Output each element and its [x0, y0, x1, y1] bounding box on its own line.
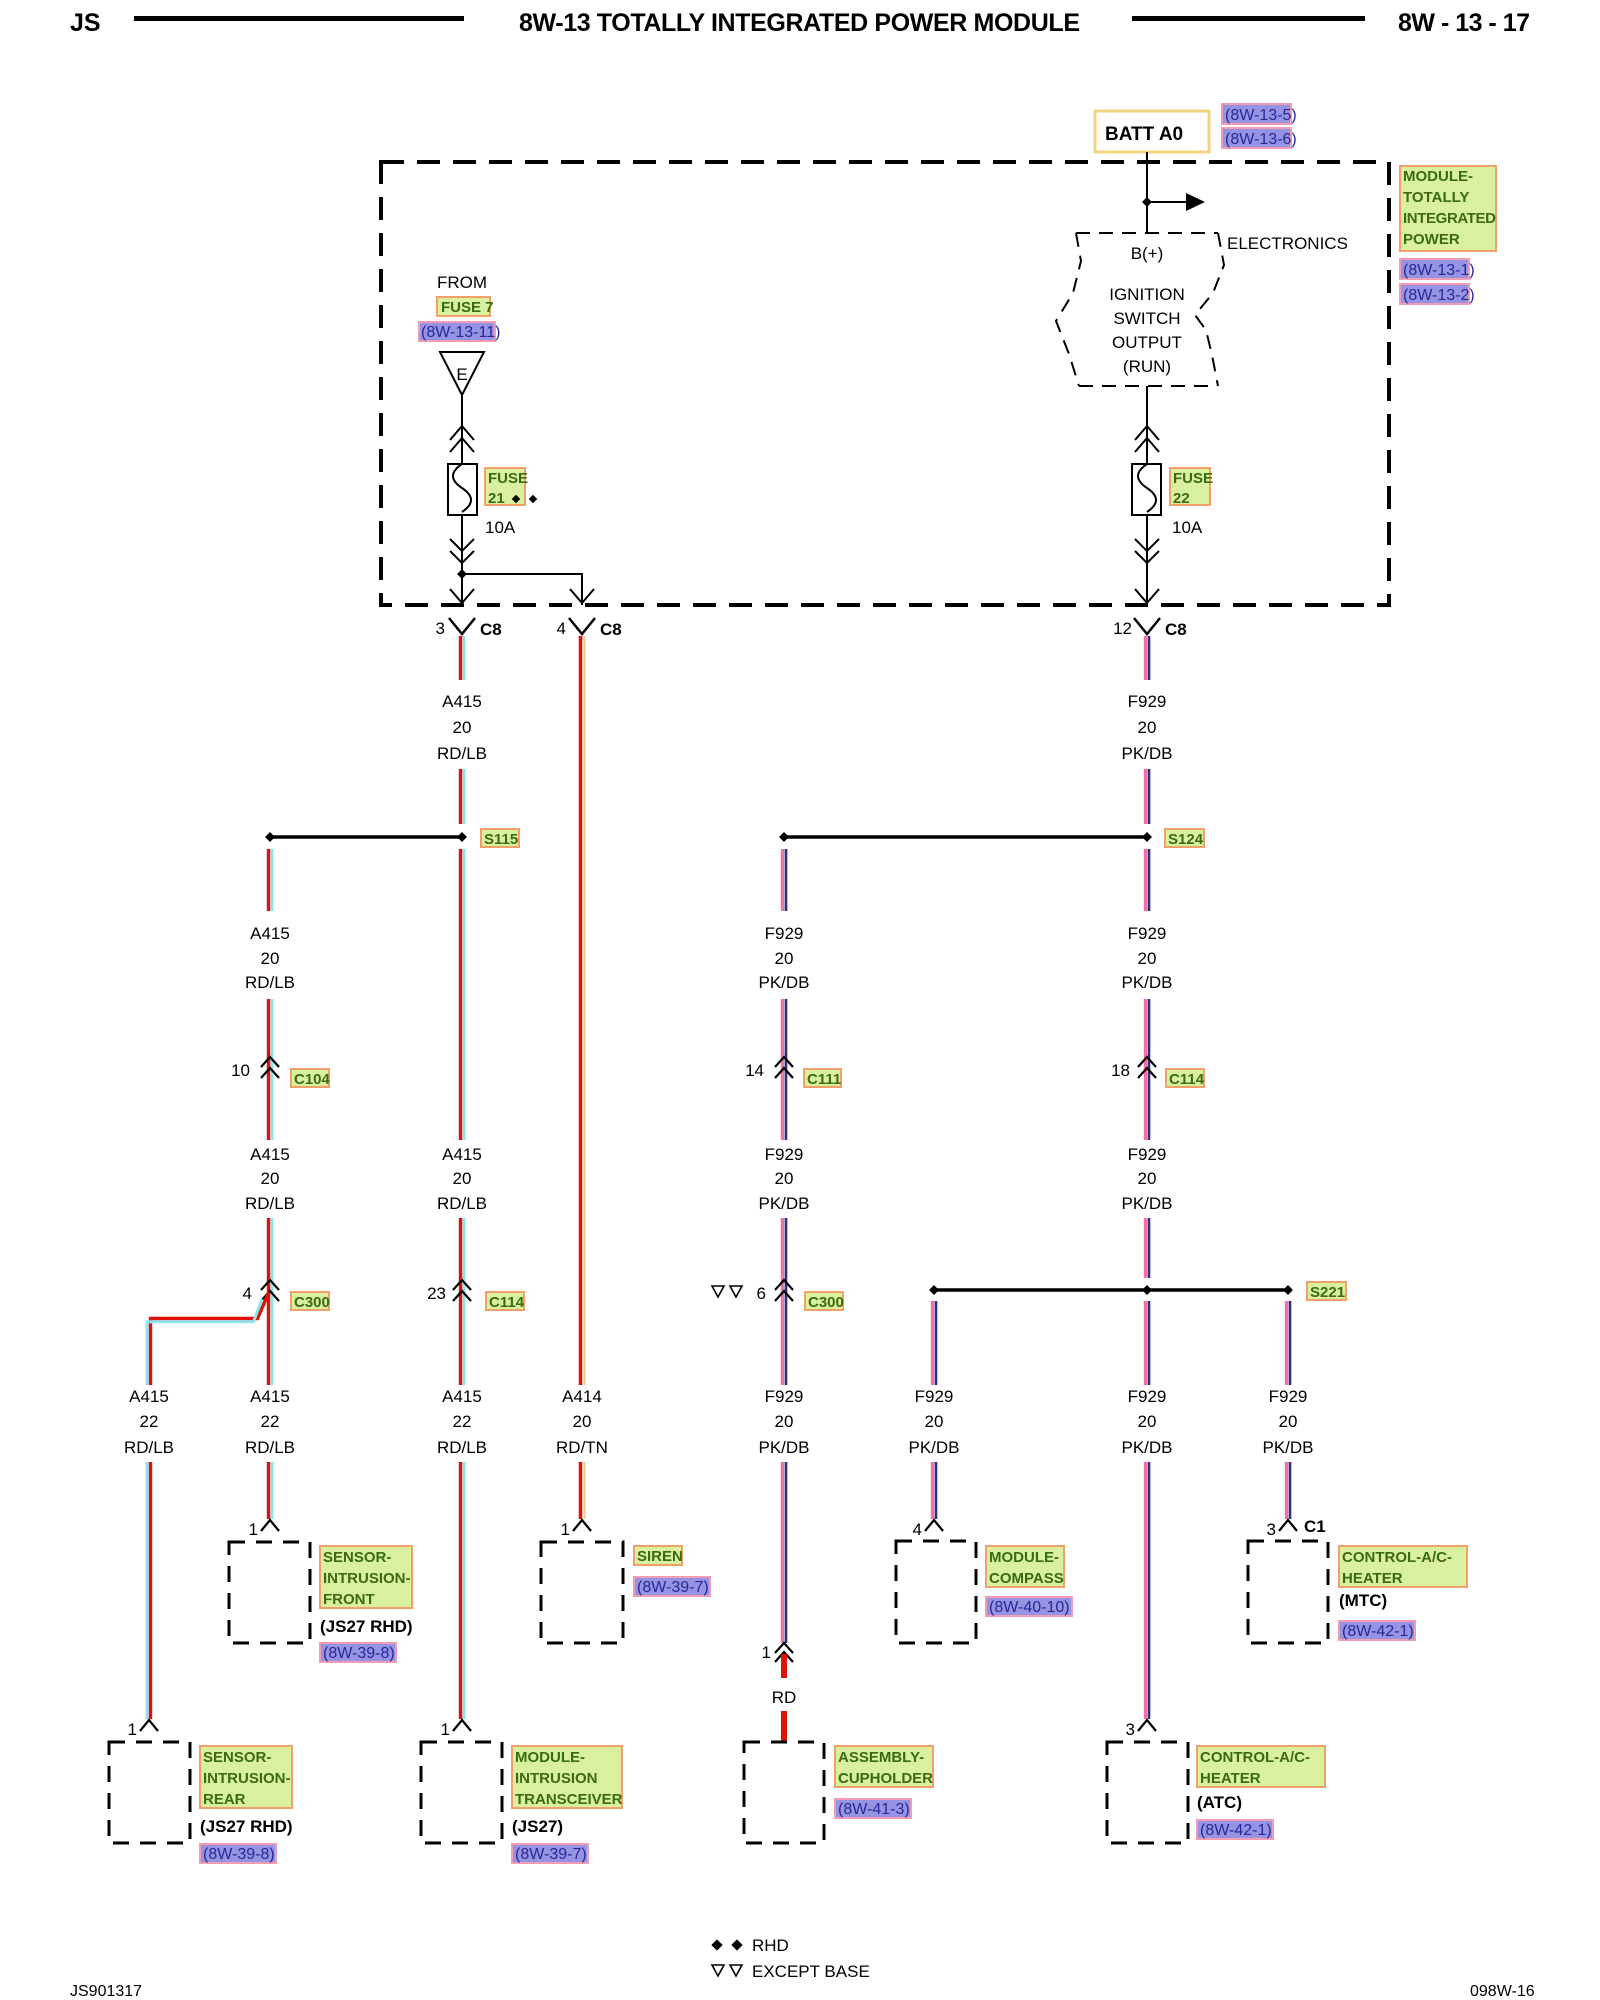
svg-text:22: 22	[453, 1412, 472, 1431]
wire F929 PK/DB seg8	[1146, 1462, 1150, 1719]
wire F929 PK/DB colF seg1	[933, 1301, 937, 1385]
svg-text:SWITCH: SWITCH	[1113, 309, 1180, 328]
svg-text:A415: A415	[442, 1387, 482, 1406]
label S115	[481, 829, 519, 848]
svg-text:BATT A0: BATT A0	[1105, 124, 1183, 145]
label A415 20 RD/LB col270	[245, 924, 295, 992]
svg-text:14: 14	[745, 1061, 764, 1080]
svg-text:C114: C114	[1169, 1071, 1205, 1088]
label C300 at pin4	[291, 1292, 330, 1311]
connector C111 pin 14	[745, 1057, 793, 1080]
arrowhead at box edge pin4	[570, 589, 594, 603]
svg-text:TOTALLY: TOTALLY	[1403, 189, 1469, 206]
label (8W-41-3) cupholder	[835, 1799, 911, 1818]
svg-text:RD/LB: RD/LB	[437, 1194, 487, 1213]
box sensor-intrusion-rear	[109, 1742, 190, 1843]
svg-text:F929: F929	[765, 1145, 804, 1164]
svg-text:RD/LB: RD/LB	[245, 1438, 295, 1457]
wire A415 22 RD/LB col149 seg2	[147, 1462, 151, 1719]
svg-text:REAR: REAR	[203, 1791, 246, 1808]
svg-text:3: 3	[1267, 1520, 1276, 1539]
label (8W-39-7) siren	[634, 1577, 710, 1596]
svg-text:CONTROL-A/C-: CONTROL-A/C-	[1200, 1749, 1310, 1766]
wire BATT A0 to ignition switch	[1146, 152, 1148, 232]
wire F929 PK/DB colE seg2	[783, 999, 787, 1140]
label F929 20 PK/DB col1147 row4	[1121, 1387, 1172, 1457]
svg-text:22: 22	[1173, 490, 1190, 507]
svg-text:(JS27 RHD): (JS27 RHD)	[320, 1617, 413, 1636]
svg-text:1: 1	[561, 1520, 570, 1539]
svg-text:20: 20	[1138, 1412, 1157, 1431]
svg-text:C8: C8	[480, 620, 502, 639]
connector C104 pin 10	[231, 1057, 279, 1080]
label ASSEMBLY-CUPHOLDER	[835, 1746, 933, 1787]
pin 3 C1 heater MTC	[1267, 1517, 1326, 1539]
svg-text:(8W-39-8): (8W-39-8)	[203, 1846, 275, 1863]
svg-text:ASSEMBLY-: ASSEMBLY-	[838, 1749, 924, 1766]
pin 1 transceiver	[441, 1720, 471, 1739]
svg-text:RD/LB: RD/LB	[245, 1194, 295, 1213]
svg-text:HEATER: HEATER	[1342, 1570, 1403, 1587]
svg-text:10: 10	[231, 1061, 250, 1080]
svg-text:PK/DB: PK/DB	[1121, 973, 1172, 992]
svg-text:OUTPUT: OUTPUT	[1112, 333, 1182, 352]
label S124	[1165, 829, 1204, 848]
junction dot on batt wire	[1142, 197, 1152, 207]
node E triangle	[440, 352, 484, 395]
svg-text:PK/DB: PK/DB	[1121, 1194, 1172, 1213]
wire arrow branch	[1147, 201, 1187, 203]
svg-text:A415: A415	[442, 1145, 482, 1164]
svg-text:20: 20	[925, 1412, 944, 1431]
svg-text:A415: A415	[129, 1387, 169, 1406]
wire A415 RD/LB seg4	[461, 1218, 465, 1385]
connector C8 pin 3	[436, 618, 502, 639]
label A415 22 RD/LB col462	[437, 1387, 487, 1457]
svg-text:C1: C1	[1304, 1517, 1326, 1536]
svg-text:HEATER: HEATER	[1200, 1770, 1261, 1787]
svg-text:PK/DB: PK/DB	[1121, 1438, 1172, 1457]
svg-text:3: 3	[436, 619, 445, 638]
svg-text:F929: F929	[765, 924, 804, 943]
wire F929 PK/DB colG seg1	[1287, 1301, 1291, 1385]
connector C300 pin 4	[243, 1280, 279, 1303]
connector chevrons above fuse 22	[1135, 426, 1159, 452]
svg-text:(8W-40-10): (8W-40-10)	[989, 1599, 1070, 1616]
wire branch to pin 4	[462, 574, 582, 605]
label A415 22 RD/LB col270	[245, 1387, 295, 1457]
fuse FUSE 21 symbol	[448, 464, 477, 515]
label A415 20 RD/LB col462 row3	[437, 1145, 487, 1213]
svg-text:(JS27): (JS27)	[512, 1817, 563, 1836]
wire A415 RD/LB left seg2	[269, 999, 273, 1140]
svg-text:(8W-13-6): (8W-13-6)	[1225, 131, 1297, 148]
svg-text:(8W-13-11): (8W-13-11)	[421, 324, 500, 341]
svg-text:3: 3	[1126, 1720, 1135, 1739]
svg-text:RD/TN: RD/TN	[556, 1438, 608, 1457]
svg-text:RHD: RHD	[752, 1936, 789, 1955]
svg-text:20: 20	[453, 1169, 472, 1188]
svg-text:20: 20	[775, 949, 794, 968]
label (8W-13-6)	[1222, 128, 1297, 148]
label SENSOR-INTRUSION-FRONT	[320, 1546, 412, 1608]
wire A414 RD/TN seg1	[581, 636, 585, 1385]
svg-text:(8W-42-1): (8W-42-1)	[1200, 1822, 1272, 1839]
svg-text:SIREN: SIREN	[637, 1548, 683, 1565]
svg-text:F929: F929	[915, 1387, 954, 1406]
wire ignition switch to fuse 22	[1146, 386, 1148, 464]
svg-text:PK/DB: PK/DB	[1121, 744, 1172, 763]
svg-text:21: 21	[488, 490, 505, 507]
except-base triangles at C300 pin6	[712, 1286, 742, 1297]
label F929 20 PK/DB col784 row3	[758, 1387, 809, 1457]
svg-text:4: 4	[913, 1520, 922, 1539]
arrowhead at box edge pin12	[1135, 589, 1159, 603]
label F929 20 PK/DB col1147 row3	[1121, 1145, 1172, 1213]
wire A415 RD/LB left seg4	[269, 1218, 273, 1385]
wire F929 PK/DB colE seg1	[783, 849, 787, 911]
svg-text:TRANSCEIVER: TRANSCEIVER	[515, 1791, 623, 1808]
svg-text:1: 1	[128, 1720, 137, 1739]
splice S124	[779, 832, 1152, 842]
label (8W-13-1)	[1400, 259, 1475, 279]
wire F929 PK/DB colG seg2	[1287, 1462, 1291, 1519]
label CONTROL-A/C-HEATER ATC	[1197, 1746, 1325, 1787]
svg-text:20: 20	[775, 1412, 794, 1431]
svg-text:PK/DB: PK/DB	[758, 1194, 809, 1213]
svg-text:FUSE: FUSE	[488, 470, 528, 487]
fuse FUSE 22 symbol	[1132, 464, 1161, 515]
legend RHD dots	[711, 1936, 789, 1955]
connector chevrons below fuse 22	[1135, 539, 1159, 563]
box cupholder	[744, 1742, 824, 1843]
pin 1 cupholder double chevron	[762, 1643, 793, 1662]
connector C114 pin 23	[427, 1280, 471, 1303]
wire A415 22 RD/LB seg6	[461, 1462, 465, 1719]
svg-text:10A: 10A	[485, 518, 516, 537]
label CONTROL-A/C-HEATER MTC	[1339, 1546, 1467, 1587]
label FUSE 21	[485, 468, 537, 507]
label (8W-42-1) MTC	[1339, 1621, 1415, 1640]
connector chevrons below fuse 21	[450, 539, 474, 563]
pin 4 compass	[913, 1520, 943, 1539]
svg-text:(8W-41-3): (8W-41-3)	[838, 1801, 910, 1818]
pin 1 sensor-intrusion-rear	[128, 1720, 158, 1739]
svg-text:18: 18	[1111, 1061, 1130, 1080]
svg-text:20: 20	[261, 949, 280, 968]
wire F929 PK/DB colF seg2	[933, 1462, 937, 1519]
connector C300 pin 6	[757, 1280, 793, 1303]
header rule left	[134, 16, 464, 21]
svg-text:1: 1	[441, 1720, 450, 1739]
label (8W-39-8) rear	[200, 1844, 276, 1863]
svg-text:INTRUSION: INTRUSION	[515, 1770, 598, 1787]
wire A415 RD/LB seg2	[461, 769, 465, 824]
label SENSOR-INTRUSION-REAR	[200, 1746, 292, 1808]
wire F929 PK/DB seg6	[1146, 1218, 1150, 1278]
svg-text:POWER: POWER	[1403, 231, 1460, 248]
svg-text:8W-13 TOTALLY INTEGRATED POWER: 8W-13 TOTALLY INTEGRATED POWER MODULE	[519, 9, 1080, 37]
svg-text:PK/DB: PK/DB	[908, 1438, 959, 1457]
svg-text:FROM: FROM	[437, 273, 487, 292]
box heater MTC	[1248, 1541, 1328, 1643]
label F929 20 PK/DB col1147 row2	[1121, 924, 1172, 992]
svg-text:RD: RD	[772, 1688, 797, 1707]
label S221	[1307, 1282, 1346, 1301]
svg-text:COMPASS: COMPASS	[989, 1570, 1064, 1587]
svg-text:(RUN): (RUN)	[1123, 357, 1171, 376]
label (8W-13-11)	[419, 322, 500, 341]
label F929 20 PK/DB col934	[908, 1387, 959, 1457]
wire F929 PK/DB seg7	[1146, 1301, 1150, 1385]
svg-text:S115: S115	[484, 831, 518, 848]
label F929 20 PK/DB col784 row2	[758, 1145, 809, 1213]
label C114 at pin23	[486, 1292, 525, 1311]
wire fuse 21 down	[461, 515, 463, 605]
label A414 20 RD/TN	[556, 1387, 608, 1457]
svg-text:F929: F929	[1128, 1387, 1167, 1406]
svg-text:FUSE: FUSE	[1173, 470, 1213, 487]
wire RD thick seg2	[781, 1711, 787, 1742]
svg-text:(MTC): (MTC)	[1339, 1591, 1387, 1610]
connector C114 pin 18	[1111, 1057, 1156, 1080]
svg-text:23: 23	[427, 1284, 446, 1303]
svg-text:RD/LB: RD/LB	[437, 1438, 487, 1457]
svg-text:C8: C8	[1165, 620, 1187, 639]
svg-text:B(+): B(+)	[1131, 244, 1164, 263]
svg-text:10A: 10A	[1172, 518, 1203, 537]
svg-text:C300: C300	[294, 1294, 330, 1311]
box sensor-intrusion-front	[229, 1542, 310, 1643]
svg-text:(8W-39-8): (8W-39-8)	[323, 1645, 395, 1662]
svg-text:JS: JS	[70, 9, 101, 37]
junction dot below fuse 21	[457, 569, 467, 579]
wire A415 RD/LB seg3 below S115	[461, 849, 465, 1140]
svg-text:F929: F929	[765, 1387, 804, 1406]
svg-text:MODULE-: MODULE-	[989, 1549, 1059, 1566]
box siren	[541, 1542, 623, 1643]
svg-text:INTRUSION-: INTRUSION-	[323, 1570, 411, 1587]
label C300 at pin6	[805, 1292, 844, 1311]
svg-text:JS901317: JS901317	[70, 1983, 142, 2000]
svg-text:(JS27 RHD): (JS27 RHD)	[200, 1817, 293, 1836]
label MODULE-INTRUSION TRANSCEIVER	[512, 1746, 623, 1808]
svg-text:12: 12	[1113, 619, 1132, 638]
svg-text:20: 20	[573, 1412, 592, 1431]
svg-text:20: 20	[261, 1169, 280, 1188]
svg-text:CUPHOLDER: CUPHOLDER	[838, 1770, 933, 1787]
svg-text:F929: F929	[1128, 924, 1167, 943]
svg-text:A414: A414	[562, 1387, 602, 1406]
label A415 20 RD/LB col462	[437, 692, 487, 763]
box heater ATC	[1107, 1742, 1188, 1843]
pin 1 siren	[561, 1520, 591, 1539]
svg-text:22: 22	[140, 1412, 159, 1431]
label A415 22 RD/LB col149	[124, 1387, 174, 1457]
label (8W-39-7) transceiver	[512, 1844, 588, 1863]
box transceiver	[421, 1742, 502, 1843]
svg-text:(8W-13-1): (8W-13-1)	[1403, 262, 1475, 279]
svg-text:20: 20	[775, 1169, 794, 1188]
svg-text:098W-16: 098W-16	[1470, 1983, 1535, 2000]
svg-text:RD/LB: RD/LB	[245, 973, 295, 992]
wire F929 PK/DB seg2	[1146, 769, 1150, 824]
svg-text:RD/LB: RD/LB	[437, 744, 487, 763]
label C114 at pin18	[1166, 1069, 1205, 1088]
svg-text:SENSOR-: SENSOR-	[203, 1749, 271, 1766]
svg-text:F929: F929	[1269, 1387, 1308, 1406]
connector C8 pin 4	[557, 618, 622, 639]
wire F929 PK/DB colE seg4	[783, 1218, 787, 1385]
label (8W-13-2)	[1400, 284, 1475, 304]
pin 3 heater ATC	[1126, 1720, 1156, 1739]
svg-text:20: 20	[1279, 1412, 1298, 1431]
wire RD thick seg1	[781, 1654, 787, 1678]
svg-text:20: 20	[1138, 1169, 1157, 1188]
svg-text:C8: C8	[600, 620, 622, 639]
box compass	[896, 1541, 976, 1643]
svg-text:(ATC): (ATC)	[1197, 1793, 1242, 1812]
svg-text:S221: S221	[1310, 1284, 1345, 1301]
wire branch bend to x=149	[147, 1292, 269, 1385]
svg-text:C104: C104	[294, 1071, 331, 1088]
svg-text:A415: A415	[250, 1387, 290, 1406]
wire A414 RD/TN seg2	[581, 1462, 585, 1519]
wire A415 22 RD/LB col270 seg2	[269, 1462, 273, 1519]
label (8W-42-1) ATC	[1197, 1820, 1273, 1839]
svg-text:INTRUSION-: INTRUSION-	[203, 1770, 291, 1787]
svg-text:F929: F929	[1128, 1145, 1167, 1164]
label MODULE-COMPASS	[986, 1546, 1064, 1587]
label (8W-13-5)	[1222, 104, 1297, 124]
svg-text:22: 22	[261, 1412, 280, 1431]
svg-text:RD/LB: RD/LB	[124, 1438, 174, 1457]
svg-text:PK/DB: PK/DB	[1262, 1438, 1313, 1457]
svg-text:(8W-39-7): (8W-39-7)	[515, 1846, 587, 1863]
svg-text:1: 1	[249, 1520, 258, 1539]
svg-text:CONTROL-A/C-: CONTROL-A/C-	[1342, 1549, 1452, 1566]
svg-text:MODULE-: MODULE-	[515, 1749, 585, 1766]
label SIREN	[634, 1546, 683, 1565]
svg-text:F929: F929	[1128, 692, 1167, 711]
label A415 20 RD/LB col270 row2	[245, 1145, 295, 1213]
header rule right	[1132, 16, 1365, 21]
svg-text:6: 6	[757, 1284, 766, 1303]
label FUSE 22	[1170, 468, 1213, 507]
label F929 20 PK/DB col784	[758, 924, 809, 992]
svg-text:INTEGRATED: INTEGRATED	[1403, 210, 1496, 227]
wire F929 PK/DB colE seg6	[783, 1462, 787, 1643]
splice S221	[929, 1285, 1293, 1295]
svg-text:20: 20	[1138, 718, 1157, 737]
svg-text:SENSOR-: SENSOR-	[323, 1549, 391, 1566]
wire E to fuse 21	[461, 395, 463, 464]
wire F929 PK/DB seg1	[1146, 636, 1150, 680]
svg-text:MODULE-: MODULE-	[1403, 168, 1473, 185]
label MODULE-TOTALLY INTEGRATED POWER	[1400, 166, 1496, 251]
arrowhead at box edge pin3	[450, 589, 474, 603]
pin 1 sensor-intrusion-front	[249, 1520, 279, 1539]
svg-text:FUSE 7: FUSE 7	[441, 299, 494, 316]
svg-text:A415: A415	[250, 924, 290, 943]
svg-text:1: 1	[762, 1643, 771, 1662]
svg-text:PK/DB: PK/DB	[758, 973, 809, 992]
svg-text:S124: S124	[1168, 831, 1204, 848]
label FUSE 7	[437, 297, 494, 316]
svg-text:8W - 13 - 17: 8W - 13 - 17	[1398, 9, 1530, 37]
label (8W-39-8) front	[320, 1643, 396, 1662]
svg-text:EXCEPT BASE: EXCEPT BASE	[752, 1962, 870, 1981]
svg-text:(8W-13-2): (8W-13-2)	[1403, 287, 1475, 304]
label F929 20 PK/DB col1288	[1262, 1387, 1313, 1457]
svg-text:FRONT: FRONT	[323, 1591, 375, 1608]
module TIPM dashed outline	[381, 162, 1389, 605]
label (8W-40-10) compass	[986, 1597, 1072, 1616]
svg-text:ELECTRONICS: ELECTRONICS	[1227, 234, 1348, 253]
svg-text:4: 4	[243, 1284, 252, 1303]
connector chevrons above fuse 21	[450, 426, 474, 452]
splice S115	[265, 832, 467, 842]
svg-text:(8W-42-1): (8W-42-1)	[1342, 1623, 1414, 1640]
connector C8 pin 12	[1113, 618, 1187, 639]
svg-text:PK/DB: PK/DB	[758, 1438, 809, 1457]
wire A415 RD/LB seg1	[461, 636, 465, 680]
wire fuse 22 down	[1146, 515, 1148, 605]
svg-text:4: 4	[557, 619, 566, 638]
svg-text:A415: A415	[250, 1145, 290, 1164]
legend except base triangles	[712, 1962, 870, 1981]
label C111	[804, 1069, 841, 1088]
svg-text:20: 20	[453, 718, 472, 737]
node BATT A0 box	[1095, 111, 1209, 152]
svg-text:20: 20	[1138, 949, 1157, 968]
svg-text:IGNITION: IGNITION	[1109, 285, 1185, 304]
wire A415 RD/LB left seg1	[269, 849, 273, 911]
ignition switch output dashed shape	[1056, 233, 1224, 386]
svg-text:E: E	[456, 365, 467, 384]
svg-text:(8W-13-5): (8W-13-5)	[1225, 107, 1297, 124]
svg-text:C300: C300	[808, 1294, 844, 1311]
svg-text:(8W-39-7): (8W-39-7)	[637, 1579, 709, 1596]
wire F929 PK/DB seg3	[1146, 849, 1150, 911]
label C104	[291, 1069, 331, 1088]
label F929 20 PK/DB col1147	[1121, 692, 1172, 763]
wire F929 PK/DB seg4	[1146, 999, 1150, 1140]
svg-text:C111: C111	[807, 1071, 841, 1088]
svg-text:C114: C114	[489, 1294, 525, 1311]
svg-text:A415: A415	[442, 692, 482, 711]
